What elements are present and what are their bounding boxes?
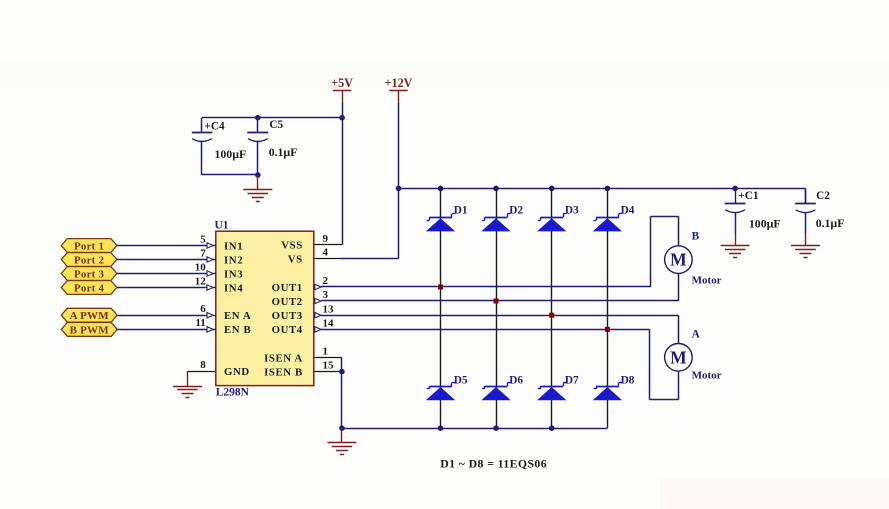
svg-text:M: M bbox=[670, 347, 687, 367]
svg-text:0.1µF: 0.1µF bbox=[269, 145, 298, 159]
svg-text:1: 1 bbox=[323, 346, 329, 358]
svg-text:IN2: IN2 bbox=[224, 254, 243, 266]
svg-text:VSS: VSS bbox=[281, 240, 303, 252]
svg-text:Port 2: Port 2 bbox=[74, 254, 105, 266]
svg-text:EN B: EN B bbox=[224, 324, 251, 336]
svg-text:A: A bbox=[692, 328, 701, 340]
svg-text:15: 15 bbox=[323, 360, 335, 372]
svg-text:L298N: L298N bbox=[216, 387, 250, 399]
svg-text:+C1: +C1 bbox=[738, 190, 759, 202]
svg-text:Motor: Motor bbox=[692, 370, 722, 382]
svg-text:D1: D1 bbox=[454, 205, 468, 217]
svg-text:GND: GND bbox=[224, 366, 250, 378]
svg-text:7: 7 bbox=[200, 247, 206, 259]
svg-text:D5: D5 bbox=[454, 375, 468, 387]
svg-text:0.1µF: 0.1µF bbox=[816, 216, 845, 230]
svg-text:IN1: IN1 bbox=[224, 240, 243, 252]
svg-text:Motor: Motor bbox=[692, 275, 722, 287]
svg-text:+5V: +5V bbox=[331, 76, 353, 90]
svg-text:M: M bbox=[670, 250, 687, 270]
svg-text:D8: D8 bbox=[621, 375, 635, 387]
svg-text:ISEN B: ISEN B bbox=[264, 366, 303, 378]
svg-text:11: 11 bbox=[195, 317, 205, 329]
svg-text:A PWM: A PWM bbox=[70, 310, 110, 322]
svg-text:9: 9 bbox=[323, 233, 329, 245]
svg-text:+12V: +12V bbox=[385, 76, 413, 90]
svg-text:12: 12 bbox=[195, 275, 207, 287]
svg-text:8: 8 bbox=[200, 359, 206, 371]
svg-text:B PWM: B PWM bbox=[70, 324, 110, 336]
svg-text:OUT3: OUT3 bbox=[272, 310, 303, 322]
svg-text:14: 14 bbox=[323, 318, 335, 330]
svg-text:5: 5 bbox=[200, 233, 206, 245]
svg-text:IN4: IN4 bbox=[224, 282, 243, 294]
svg-text:D6: D6 bbox=[509, 375, 523, 387]
svg-text:3: 3 bbox=[323, 289, 329, 301]
svg-text:4: 4 bbox=[323, 247, 329, 259]
svg-text:EN A: EN A bbox=[224, 310, 251, 322]
svg-text:C5: C5 bbox=[269, 119, 283, 131]
svg-text:ISEN A: ISEN A bbox=[264, 352, 303, 364]
svg-text:IN3: IN3 bbox=[224, 268, 243, 280]
svg-text:OUT1: OUT1 bbox=[272, 282, 303, 294]
svg-text:Port 1: Port 1 bbox=[74, 240, 104, 252]
svg-text:Port 4: Port 4 bbox=[74, 282, 105, 294]
svg-text:100µF: 100µF bbox=[749, 217, 781, 231]
svg-text:OUT2: OUT2 bbox=[272, 296, 303, 308]
svg-text:13: 13 bbox=[323, 303, 335, 315]
svg-text:U1: U1 bbox=[215, 220, 229, 232]
svg-text:B: B bbox=[692, 230, 700, 242]
svg-text:D4: D4 bbox=[621, 205, 635, 217]
svg-text:VS: VS bbox=[288, 253, 303, 265]
svg-text:10: 10 bbox=[195, 261, 207, 273]
svg-text:100µF: 100µF bbox=[215, 147, 247, 161]
svg-text:OUT4: OUT4 bbox=[272, 324, 303, 336]
svg-text:D1 ~ D8 = 11EQS06: D1 ~ D8 = 11EQS06 bbox=[440, 456, 547, 470]
svg-text:2: 2 bbox=[323, 275, 329, 287]
svg-text:C2: C2 bbox=[816, 190, 830, 202]
svg-text:D2: D2 bbox=[509, 205, 523, 217]
svg-text:D3: D3 bbox=[565, 205, 579, 217]
svg-text:D7: D7 bbox=[565, 375, 579, 387]
svg-text:6: 6 bbox=[200, 303, 206, 315]
svg-text:Port 3: Port 3 bbox=[74, 268, 105, 280]
svg-text:+C4: +C4 bbox=[204, 120, 225, 132]
